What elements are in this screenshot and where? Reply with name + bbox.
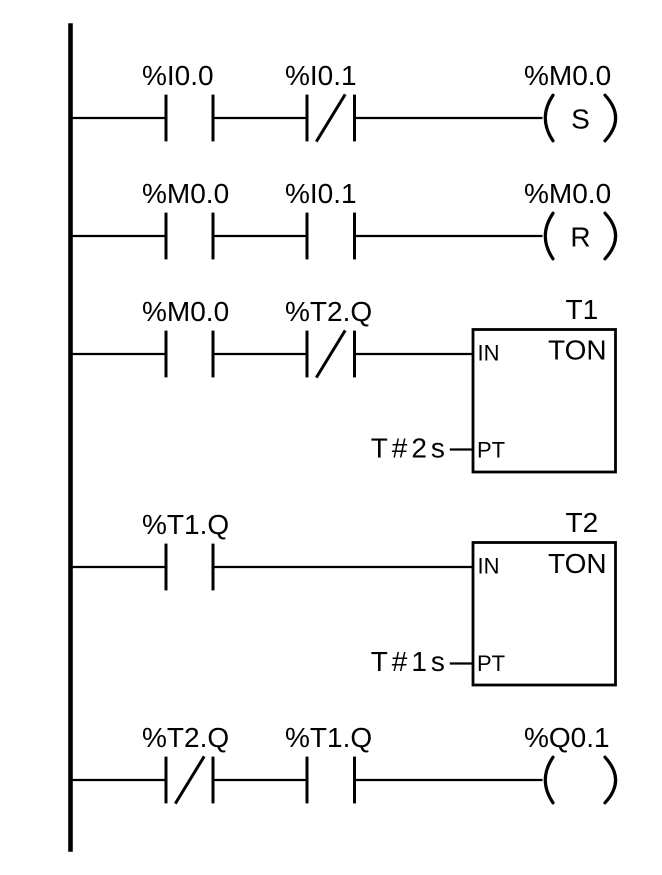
- svg-text:S: S: [571, 104, 590, 135]
- timer U=T2 TON block: [473, 543, 616, 686]
- wire contact T2.Q to contact T1.Q: [213, 779, 307, 781]
- contact %T2.Q (NC): [307, 330, 355, 377]
- timer U=T1 TON block: [473, 330, 616, 473]
- svg-text:%I0.0: %I0.0: [142, 60, 214, 91]
- svg-text:%T2.Q: %T2.Q: [285, 296, 372, 327]
- svg-text:T#1s: T#1s: [371, 646, 449, 677]
- svg-text:T#2s: T#2s: [371, 433, 449, 464]
- svg-text:%T1.Q: %T1.Q: [142, 509, 229, 540]
- wire contact T2.Q to timer T1 IN: [355, 353, 474, 355]
- wire PT stub: [450, 662, 473, 664]
- wire contact M0.0 to contact I0.1: [213, 235, 307, 237]
- wire contact I0.1 to coil M0.0: [355, 117, 543, 119]
- svg-text:R: R: [570, 222, 590, 253]
- svg-text:%M0.0: %M0.0: [524, 60, 611, 91]
- coil %Q0.1: [545, 757, 615, 803]
- contact %T1.Q (NO): [166, 544, 213, 591]
- wire PT stub: [450, 448, 473, 450]
- svg-text:%T1.Q: %T1.Q: [285, 722, 372, 753]
- svg-text:%M0.0: %M0.0: [524, 178, 611, 209]
- wire contact T1.Q to timer T2 IN: [213, 566, 473, 568]
- svg-text:PT: PT: [477, 651, 505, 676]
- contact %I0.1 (NO): [307, 213, 355, 260]
- wire rail to contact M0.0: [71, 235, 167, 237]
- svg-text:T2: T2: [566, 507, 599, 538]
- svg-text:TON: TON: [548, 548, 607, 579]
- svg-text:IN: IN: [478, 341, 500, 366]
- contact %T2.Q (NC): [166, 756, 213, 803]
- svg-text:TON: TON: [548, 335, 607, 366]
- svg-text:%Q0.1: %Q0.1: [524, 722, 610, 753]
- wire contact M0.0 to contact T2.Q: [213, 353, 307, 355]
- wire contact I0.0 to contact I0.1: [213, 117, 307, 119]
- svg-text:T1: T1: [566, 294, 599, 325]
- svg-text:PT: PT: [477, 438, 505, 463]
- contact %I0.1 (NC): [307, 94, 355, 141]
- wire rail to contact T1.Q: [71, 566, 167, 568]
- coil %M0.0 set (S): [545, 95, 615, 141]
- svg-text:%I0.1: %I0.1: [285, 178, 357, 209]
- contact %M0.0 (NO): [166, 213, 213, 260]
- svg-text:%M0.0: %M0.0: [142, 178, 229, 209]
- svg-text:IN: IN: [478, 554, 500, 579]
- left power rail: [68, 23, 73, 852]
- wire contact I0.1 to coil M0.0: [355, 235, 543, 237]
- wire rail to contact M0.0: [71, 353, 167, 355]
- svg-text:%M0.0: %M0.0: [142, 296, 229, 327]
- wire contact T1.Q to coil Q0.1: [355, 779, 543, 781]
- contact %T1.Q (NO): [307, 757, 355, 804]
- wire rail to contact I0.0: [71, 117, 167, 119]
- coil %M0.0 reset (R): [545, 213, 615, 259]
- wire rail to contact T2.Q: [71, 779, 167, 781]
- svg-text:%I0.1: %I0.1: [285, 60, 357, 91]
- contact %I0.0 (NO): [166, 95, 213, 142]
- contact %M0.0 (NO): [166, 331, 213, 378]
- svg-text:%T2.Q: %T2.Q: [142, 722, 229, 753]
